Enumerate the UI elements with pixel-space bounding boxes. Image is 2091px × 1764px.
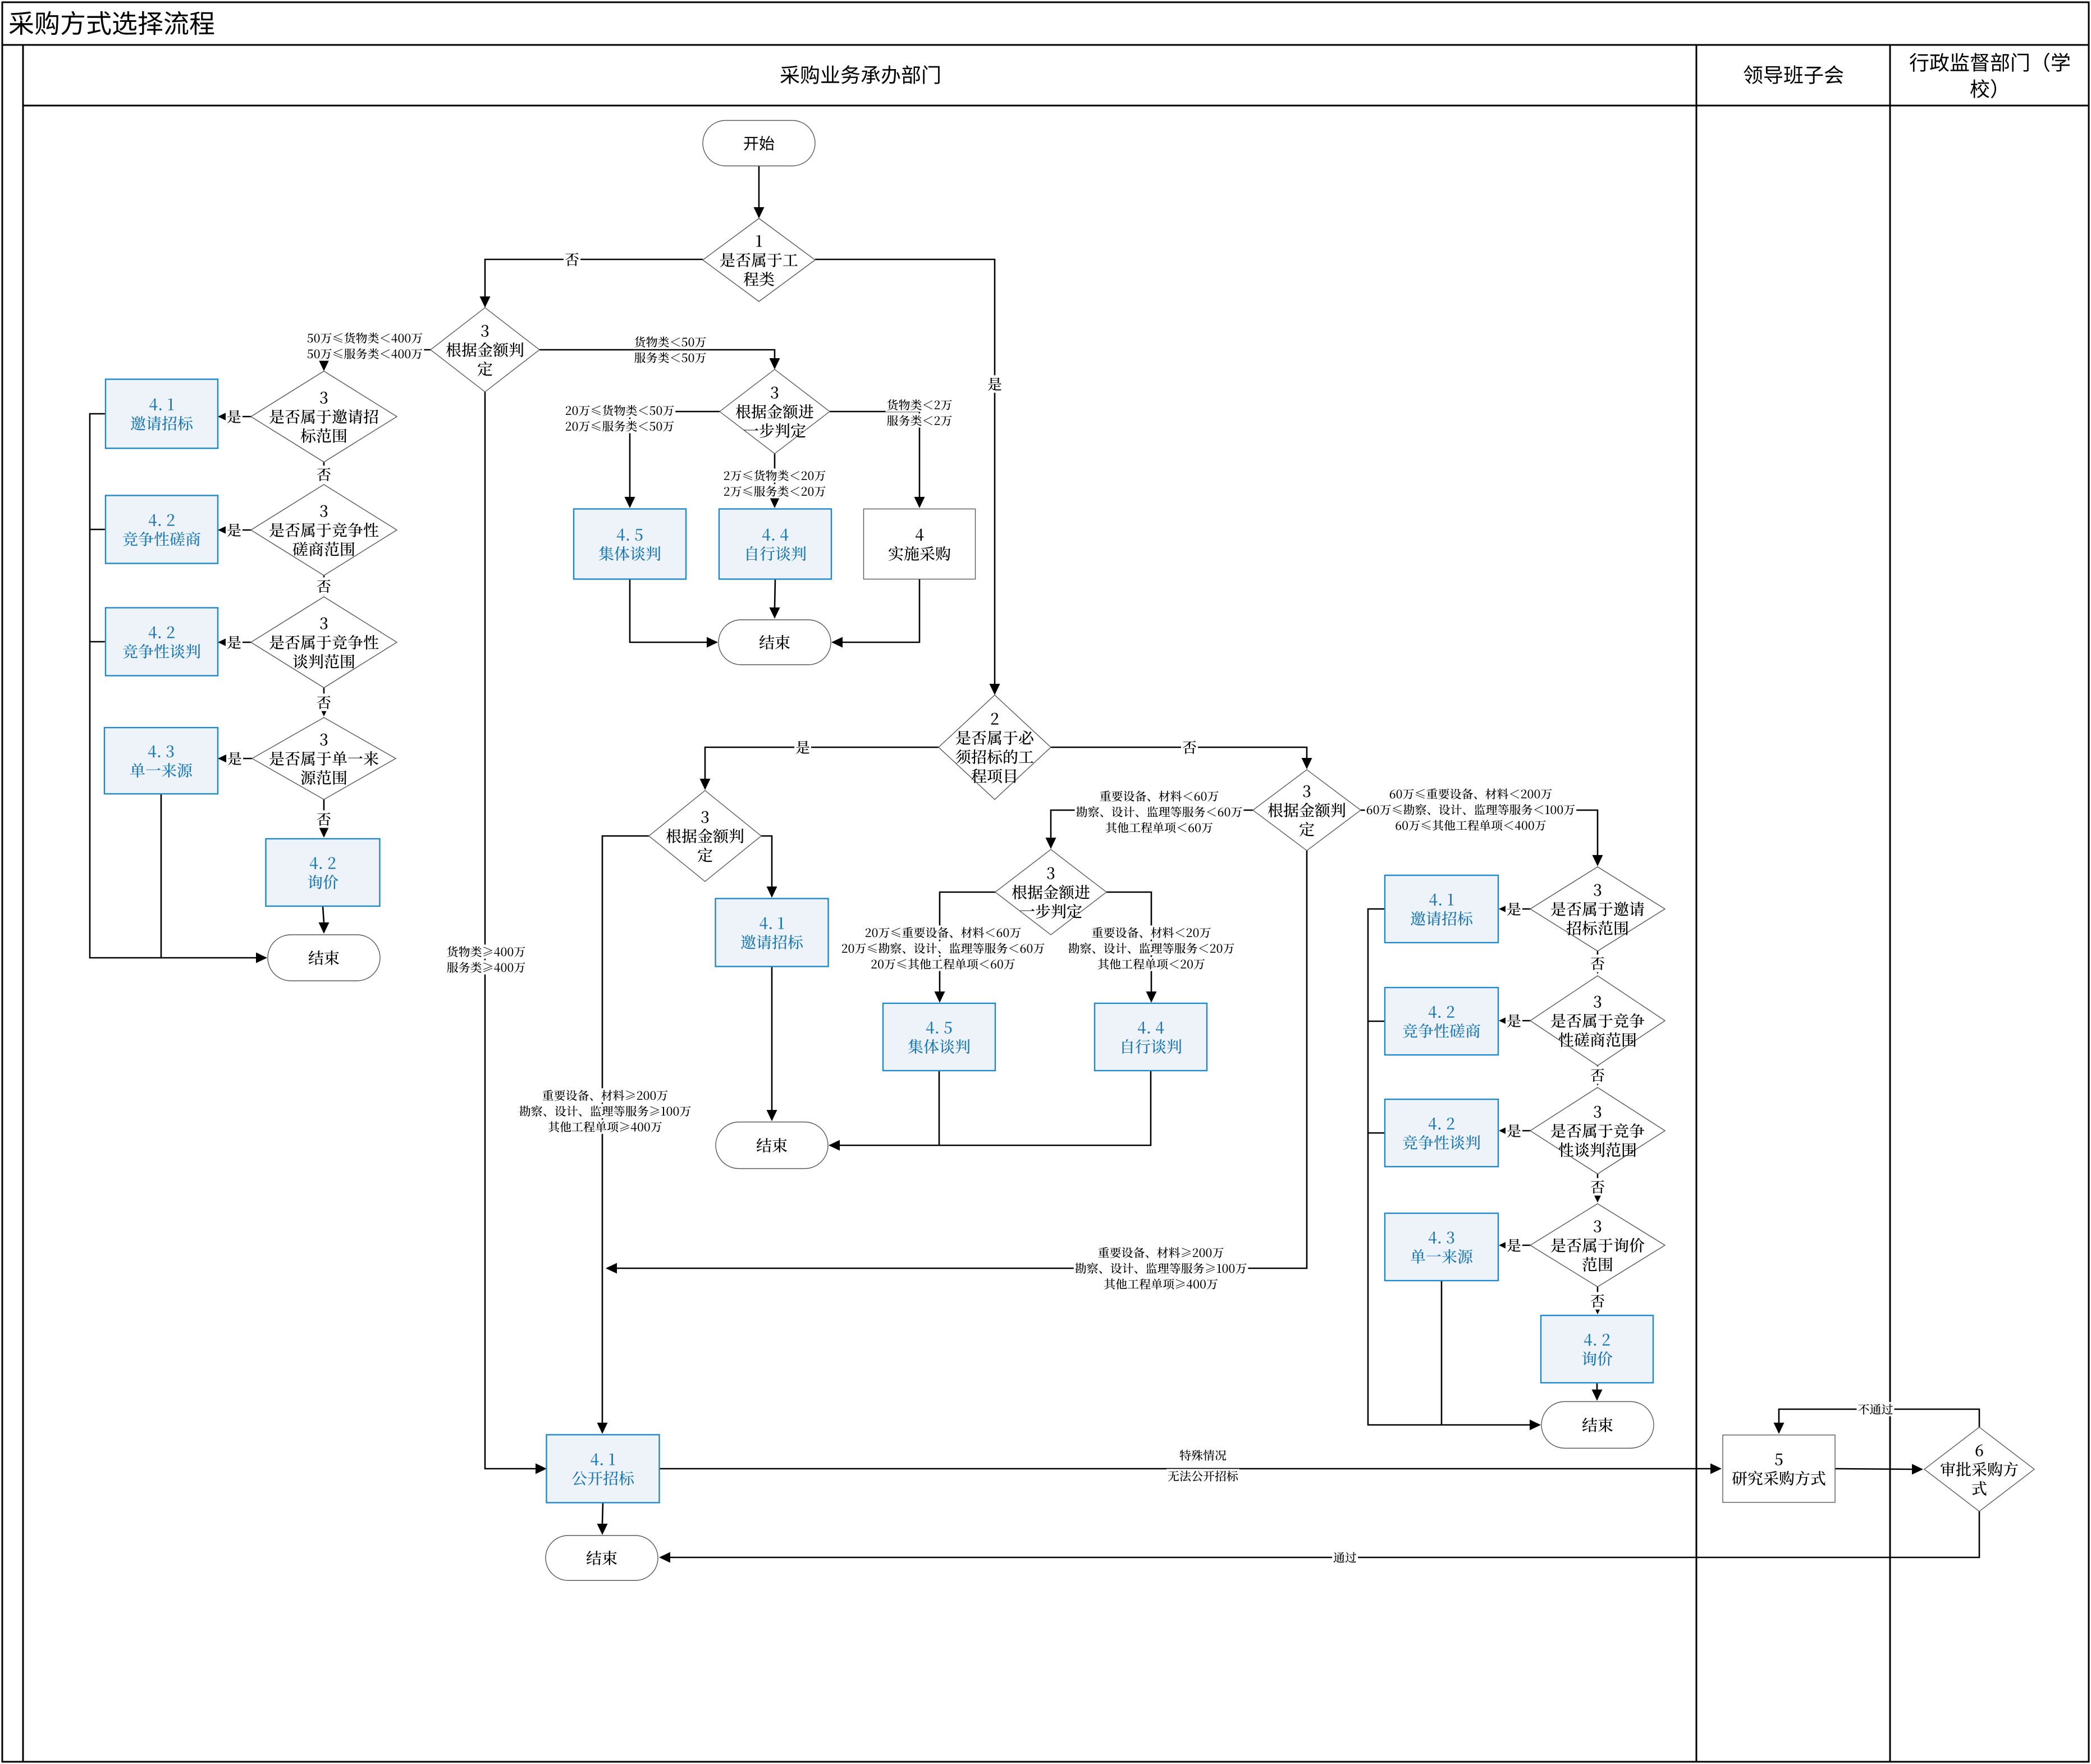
label 60-200 block (1365, 787, 1577, 832)
wire shishi to endA (831, 579, 919, 648)
decision 3 yaoqing range R (1530, 867, 1665, 951)
wire xunjiaR to endD (1592, 1383, 1603, 1401)
label ge200 right block (1074, 1245, 1248, 1291)
wire dR4 yes (1499, 1240, 1530, 1251)
box 4.2 xunjia R (1541, 1315, 1653, 1383)
lane header 采购业务承办部门 (780, 65, 940, 84)
wire dR1 yes (1499, 904, 1530, 915)
wire d6 tongguo to endE (659, 1511, 1979, 1563)
wire boxesR to endD (1368, 909, 1541, 1431)
wire dL3 yes (218, 637, 251, 648)
decision 6 shenpi (1924, 1427, 2034, 1511)
wire d1 yes to d2 (815, 259, 1000, 695)
label no dR1 (1589, 954, 1606, 972)
label no dR4 (1589, 1292, 1606, 1309)
wire d3 to dp1 (539, 350, 780, 369)
label no dL2 (315, 577, 332, 595)
wire dp1 left to jiti (625, 412, 720, 508)
label lt20 block (1067, 925, 1236, 971)
wire dp2 left to jiti2 (935, 892, 996, 1003)
box 4 shishi caigou (864, 509, 976, 579)
wire boxesL to endB (90, 414, 267, 963)
wire jiti2 to endC (829, 1071, 939, 1151)
wire dR3 no (1593, 1174, 1603, 1203)
box 4.2 cuoshang R (1385, 988, 1498, 1055)
wire box42cR join (1368, 1021, 1385, 1022)
decision 3 tanpan range R (1530, 1087, 1665, 1174)
wire d2 no to dright (1051, 747, 1312, 769)
label no d1 (564, 250, 580, 268)
wire dright left to dp2 (1046, 810, 1253, 849)
decision 3 jine top (431, 308, 539, 392)
label teshu qingkuang a (1178, 1448, 1228, 1462)
box 4.2 cuoshang L (106, 496, 218, 564)
box 4.4 zixing 1 (719, 509, 831, 579)
end node B (268, 935, 380, 981)
end node E (546, 1535, 658, 1580)
wire dR1 no (1593, 951, 1603, 974)
decision 3 jinyibu 1 (720, 369, 830, 454)
label no dL3 (315, 693, 332, 711)
label yes dL2 (226, 521, 242, 538)
box 4.2 tanpan R (1385, 1099, 1498, 1167)
wire yaoqingM to endC (767, 967, 777, 1121)
wire gongkai to yanjiu (660, 1464, 1722, 1474)
label no dL1 (315, 465, 332, 483)
wire box42tR join (1368, 1132, 1385, 1134)
wire dR2 no (1593, 1066, 1603, 1086)
label 20-50 (564, 403, 676, 433)
wire box42cL join (90, 529, 106, 531)
label no dR2 (1589, 1066, 1606, 1084)
wire xunjiaL to endB (319, 906, 330, 934)
decision 3 jine mid (649, 790, 761, 881)
wire dmid left to gongkai top (597, 836, 649, 1434)
wire d6 butongguo feedback (1774, 1409, 1980, 1434)
label yes d2 (794, 738, 811, 756)
label no dL4 (315, 810, 332, 828)
label yes dR1 (1506, 900, 1522, 917)
box 4.1 yaoqing M (716, 899, 829, 967)
label ge200 mid block (518, 1088, 693, 1134)
box 4.5 jiti 1 (574, 509, 686, 579)
wire box43L down (161, 794, 162, 958)
decision 3 jine right (1253, 770, 1361, 851)
wire jiti1 to endA (630, 579, 718, 648)
wire dL3 no (319, 688, 330, 716)
label lt50 (633, 335, 708, 364)
label yes dR4 (1506, 1236, 1522, 1254)
box 4.3 danyilaiyuan R (1385, 1213, 1498, 1281)
end node D (1541, 1402, 1654, 1448)
label 20-60 block (840, 925, 1046, 971)
label lt2 (886, 397, 954, 427)
wire dright down merge (606, 851, 1307, 1274)
label no dR3 (1589, 1178, 1606, 1195)
decision 3 cuoshang range R (1530, 976, 1665, 1066)
wire dR2 yes (1499, 1016, 1530, 1026)
label teshu qingkuang b (1166, 1469, 1239, 1483)
wire dright right to dR1 (1361, 810, 1603, 866)
label ge400 (446, 944, 527, 974)
wire gongkai to endE (597, 1503, 608, 1535)
box 4.1 yaoqing L (106, 380, 218, 449)
label yes dR3 (1506, 1122, 1522, 1139)
wire d3 to dL1 (319, 350, 431, 371)
wire dL4 no to xunjia (319, 799, 330, 838)
wire dR3 yes (1499, 1126, 1530, 1136)
wire dL2 no (319, 575, 330, 596)
wire dL1 yes (218, 412, 251, 422)
wire dp1 right to shishi (830, 412, 925, 508)
label 2-20 (722, 468, 827, 498)
label no d2 (1181, 738, 1198, 756)
box 4.1 yaoqing R (1385, 875, 1498, 943)
wire start to d1 (754, 166, 765, 218)
wire d2 yes to dmid (700, 747, 939, 790)
decision 3 yaoqing range L (251, 371, 397, 462)
wire dL4 yes (218, 753, 252, 764)
label 50-400 (306, 331, 424, 360)
decision 3 xunjia range R (1530, 1204, 1665, 1287)
box 4.4 zixing 2 (1095, 1003, 1207, 1071)
wire dp2 right to zixing2 (1106, 892, 1157, 1003)
label lt60 block (1075, 789, 1244, 834)
wire dL2 yes (218, 525, 251, 536)
wire box42tL join (90, 641, 106, 643)
label yes dL4 (226, 750, 243, 767)
box 5 yanjiu (1723, 1435, 1835, 1502)
wire dp1 down to zixing (770, 454, 780, 508)
end node A (719, 620, 831, 665)
wire dL1 no (319, 462, 330, 483)
label tongguo (1332, 1550, 1358, 1564)
box 4.2 tanpan L (106, 608, 218, 676)
decision 1 gongchenglei (703, 218, 815, 301)
lane header 行政监督部门（学校） (1910, 53, 2070, 98)
box 4.1 gongkai (547, 1435, 660, 1503)
box 4.3 danyilaiyuan L (104, 728, 218, 794)
label yes dR2 (1506, 1012, 1522, 1029)
wire dR4 no to xunjiaR (1593, 1287, 1603, 1314)
decision 3 jinyibu 2 (995, 849, 1106, 935)
decision 2 bixu zhaobiao (939, 695, 1051, 799)
wire d1 no to d3 (480, 259, 703, 308)
label butongguo (1857, 1402, 1895, 1416)
wire d3 down to gongkai (485, 392, 547, 1474)
wire box43R down (1441, 1281, 1443, 1425)
wire zixing2 join (939, 1071, 1151, 1145)
title 采购方式选择流程 (10, 11, 214, 35)
end node C (716, 1122, 828, 1169)
lane header 领导班子会 (1744, 65, 1843, 84)
decision 3 cuoshang range L (251, 485, 397, 575)
wire yanjiu to d6 (1835, 1464, 1923, 1475)
decision 3 danyi range L (252, 718, 396, 799)
start node kaishi (703, 121, 815, 166)
label yes dL3 (226, 633, 242, 651)
wire zixing1 to endA (770, 579, 780, 619)
box 4.2 xunjia L (266, 839, 380, 906)
label yes d1 (986, 375, 1003, 392)
decision 3 tanpan range L (251, 597, 397, 688)
wire dmid to yaoqingM (761, 836, 777, 898)
box 4.5 jiti 2 (883, 1003, 995, 1071)
label yes dL1 (226, 408, 242, 425)
